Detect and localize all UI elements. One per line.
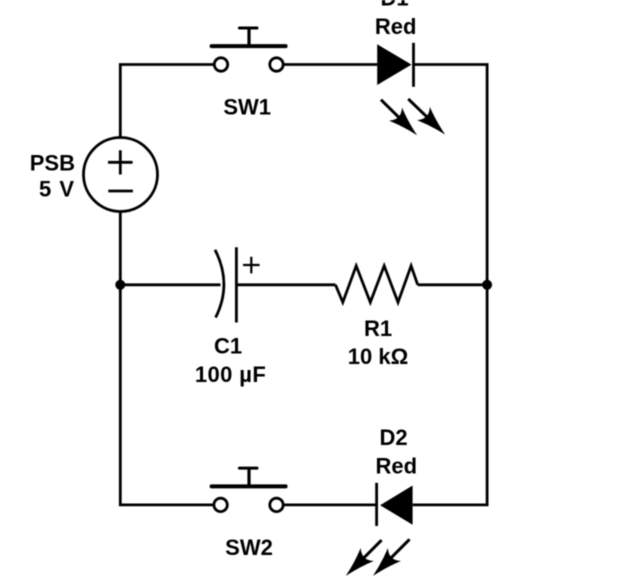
switch SW2 (pushbutton) — [212, 468, 286, 511]
svg-text:D1: D1 — [380, 0, 408, 11]
capacitor C1 (polarized) — [215, 247, 260, 322]
svg-text:SW1: SW1 — [223, 95, 271, 120]
svg-text:Red: Red — [375, 14, 417, 39]
wire: middle left (node A to C1) — [120, 283, 220, 286]
wire: top-left (left rail top + top wire to SW1) — [120, 65, 214, 139]
wire: left rail bottom + bottom wire to SW2 — [120, 211, 213, 505]
svg-text:10 kΩ: 10 kΩ — [348, 344, 408, 369]
label SW1 — [223, 95, 271, 120]
D2 light arrow 1 — [339, 534, 388, 583]
wire: D1 to right rail, right rail, and bottom to D2 — [413, 65, 487, 505]
wire: SW1 to D1 — [284, 63, 378, 66]
voltage source PSB 5 V — [84, 138, 158, 212]
svg-text:5 V: 5 V — [39, 177, 75, 202]
D1 light arrow 2 — [402, 92, 452, 141]
D2 light arrow 2 — [366, 533, 416, 583]
svg-text:100 µF: 100 µF — [195, 362, 266, 387]
svg-text:D2: D2 — [380, 425, 408, 450]
svg-text:SW2: SW2 — [225, 535, 273, 560]
label R1 — [364, 316, 392, 341]
label 10 kΩ — [348, 344, 408, 369]
label C1 — [214, 333, 242, 358]
label Red (D2) — [376, 453, 418, 478]
node B (right junction dot) — [482, 280, 492, 290]
label SW2 — [225, 535, 273, 560]
wire: SW2 to D2 — [284, 503, 377, 506]
LED D2 — [377, 483, 413, 526]
LED D1 — [377, 43, 413, 87]
wire: C1 to R1 — [236, 283, 335, 286]
svg-text:C1: C1 — [214, 333, 242, 358]
node A (left junction dot) — [115, 280, 125, 290]
switch SW1 (pushbutton) — [212, 28, 286, 71]
label 5 V — [39, 177, 75, 202]
label 100 µF — [195, 362, 266, 387]
label D2 — [380, 425, 408, 450]
D1 light arrow 1 — [374, 93, 423, 142]
resistor R1 — [336, 266, 418, 303]
wire: R1 to node B — [418, 283, 487, 286]
label D1 — [380, 0, 408, 11]
svg-text:Red: Red — [376, 453, 418, 478]
svg-text:R1: R1 — [364, 316, 392, 341]
label PSB — [30, 151, 75, 176]
label Red (D1) — [375, 14, 417, 39]
svg-text:PSB: PSB — [30, 151, 75, 176]
